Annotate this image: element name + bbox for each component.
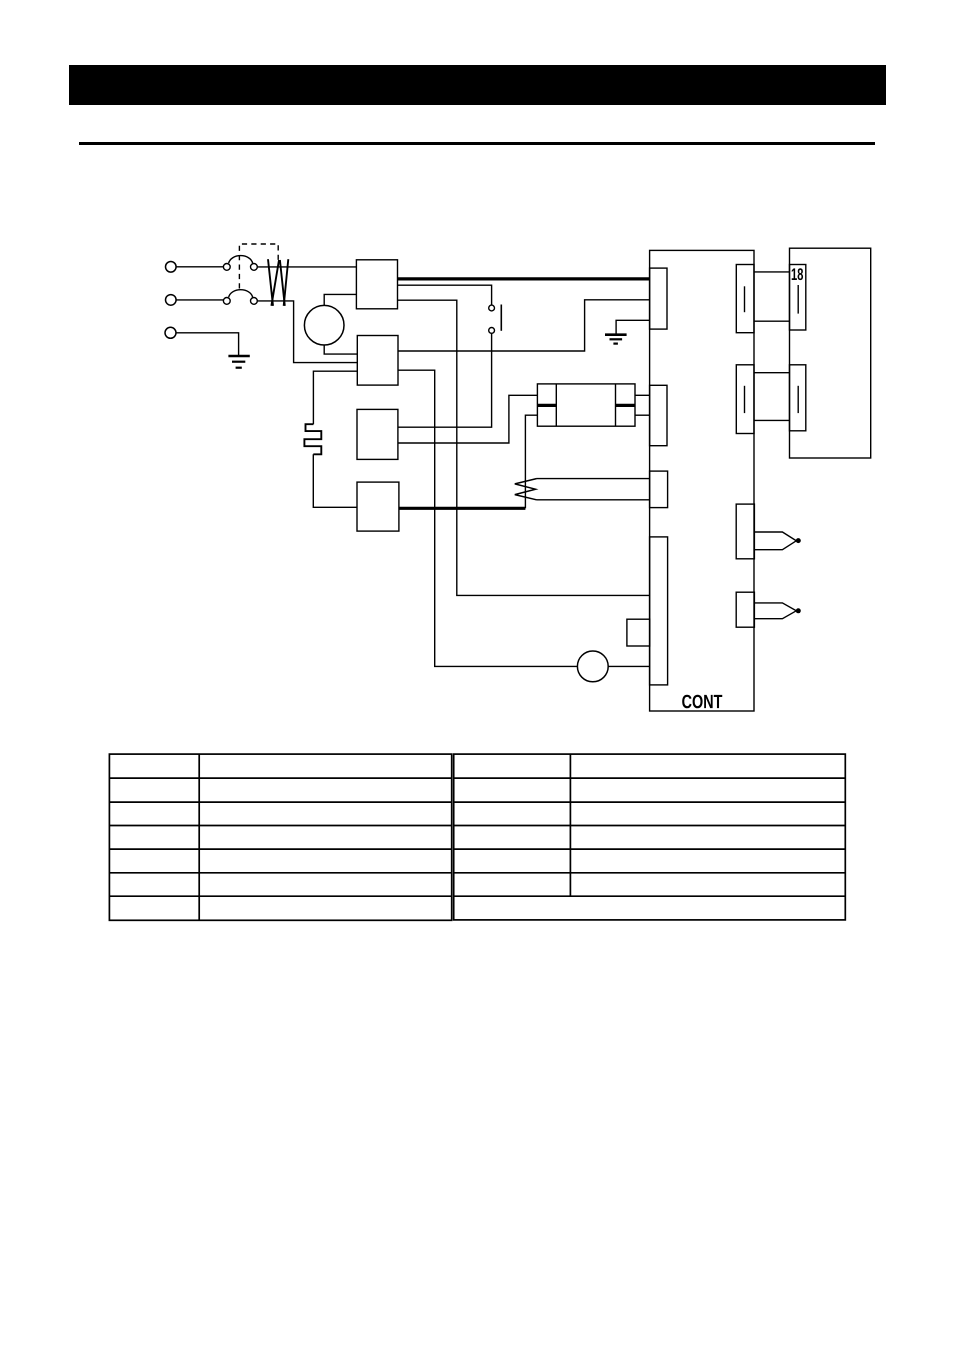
CN19 pin tick bbox=[797, 386, 799, 413]
label 18 bbox=[792, 268, 803, 280]
CONT connector CN4 tall bbox=[650, 537, 668, 685]
wire CN6 to display pin2 bbox=[754, 419, 790, 421]
wire box2 to sensor circle bbox=[398, 370, 577, 666]
CONT connector CN3 bbox=[650, 471, 668, 508]
parts table left bbox=[109, 754, 451, 920]
fuse F1 thick band left bbox=[537, 404, 556, 407]
wire sensor to CONT bbox=[608, 665, 650, 667]
door switch S2 contact top bbox=[489, 305, 495, 311]
wire box2 up to CONT bbox=[398, 300, 650, 351]
thermal protector TP (square zigzag) bbox=[304, 424, 321, 454]
wire CONT to ground bbox=[616, 320, 650, 334]
heater H1 bottom line bbox=[537, 499, 650, 501]
wire motor top to box1 bbox=[324, 294, 356, 305]
terminal L2 bbox=[166, 295, 177, 306]
CONT right connector CN8 bbox=[736, 592, 754, 627]
fuse F1 thick band right bbox=[616, 404, 636, 407]
door switch S2 contact bottom bbox=[489, 328, 495, 334]
wire door switch to box3 bbox=[398, 333, 492, 427]
header rule line bbox=[79, 142, 875, 145]
terminal ground E bbox=[165, 327, 176, 338]
switch SW1 pole1 contact left bbox=[223, 264, 230, 271]
small box K1 beside CONT bbox=[627, 619, 650, 646]
door switch S2 actuator bar bbox=[500, 305, 502, 331]
wire box2 to thermal protector bbox=[313, 371, 357, 424]
wire pole2 to box2 bbox=[257, 301, 357, 363]
plug P2 bbox=[754, 603, 796, 619]
box2 (relay) bbox=[357, 336, 398, 386]
wire thermal protector to box4 bbox=[313, 454, 357, 507]
wire box1 down to CONT bbox=[398, 300, 651, 595]
switch SW1 pole2 contact left bbox=[223, 298, 230, 305]
display connector CN19 bbox=[790, 365, 806, 431]
header black bar bbox=[69, 65, 886, 105]
fan motor M bbox=[304, 305, 344, 345]
CONT controller box bbox=[650, 250, 754, 711]
switch SW1 mechanical link dashed bbox=[239, 244, 278, 289]
fuse F1 cap divider left bbox=[555, 384, 557, 426]
display connector CN18 bbox=[790, 265, 806, 331]
heater H1 top line bbox=[537, 478, 650, 480]
box4 (relay) bbox=[357, 482, 399, 531]
plug P2 dot bbox=[796, 608, 801, 613]
fuse F1 body bbox=[537, 384, 635, 426]
sensor B1 (circle) bbox=[577, 651, 608, 682]
wire L1 to switch bbox=[176, 266, 223, 268]
plug P1 bbox=[754, 532, 796, 550]
fuse tab to CONT bottom bbox=[635, 414, 650, 416]
breaker CB1 (crossed contacts) bbox=[268, 259, 288, 306]
wire E to ground bbox=[176, 333, 238, 356]
display board box bbox=[790, 248, 871, 458]
switch SW1 pole2 contact right bbox=[251, 298, 258, 305]
CONT connector CN1 bbox=[650, 268, 667, 329]
label CONT bbox=[682, 695, 722, 709]
CONT right connector CN5 bbox=[736, 265, 754, 333]
wire box1 to door switch bbox=[398, 285, 492, 305]
parts table right bbox=[454, 754, 846, 920]
fuse F1 cap divider right bbox=[615, 384, 617, 426]
wire box3 to fuse bbox=[398, 395, 538, 443]
CONT right connector CN6 bbox=[736, 365, 754, 434]
CONT right connector CN7 bbox=[736, 504, 754, 559]
heater H1 zigzag end bbox=[515, 479, 537, 500]
switch SW1 pole1 contact right bbox=[251, 264, 258, 271]
box1 (relay) bbox=[356, 260, 397, 309]
wire CN6 to display pin1 bbox=[754, 372, 790, 374]
wire CN5 to display pin2 bbox=[754, 320, 790, 322]
wire L2 to switch bbox=[176, 299, 223, 301]
wire CN5 to display pin1 bbox=[754, 271, 790, 273]
wire pole1 to breaker to box1 bbox=[257, 266, 356, 268]
fuse tab to CONT top bbox=[635, 394, 650, 396]
CN5 pin tick bbox=[744, 286, 746, 312]
thick wire box1 to CONT connector bbox=[398, 277, 650, 280]
switch SW1 pole2 arc bbox=[229, 290, 253, 298]
terminal L1 bbox=[166, 262, 177, 273]
box3 (relay) bbox=[357, 409, 398, 459]
wire motor bottom to box2 bbox=[324, 345, 357, 354]
CN18 pin tick bbox=[797, 285, 799, 314]
thick wire box4 to fuse leg bbox=[399, 507, 526, 510]
ground G2 bbox=[605, 335, 627, 344]
CN6 pin tick bbox=[744, 386, 746, 413]
ground G1 bbox=[228, 356, 249, 368]
switch SW1 pole1 arc bbox=[229, 256, 253, 264]
CONT connector CN2 bbox=[650, 385, 667, 445]
plug P1 dot bbox=[796, 538, 801, 543]
wire fuse to box4 bbox=[525, 415, 537, 508]
